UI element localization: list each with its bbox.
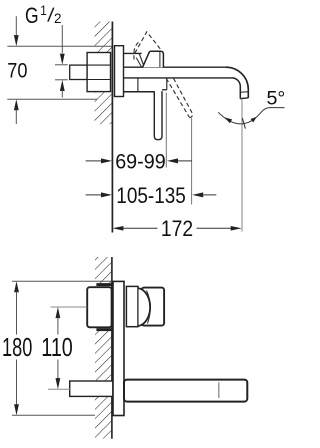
wall hatching (lower view) bbox=[95, 257, 112, 439]
wall plate bbox=[113, 281, 124, 415]
svg-text:172: 172 bbox=[161, 216, 193, 241]
dimension 70 bbox=[7, 16, 111, 124]
mounting tabs bbox=[96, 283, 111, 331]
body below tube / handle base block bbox=[124, 78, 167, 92]
spout bar seam tick bbox=[218, 382, 220, 398]
supply stub (lower view) bbox=[70, 381, 113, 396]
concealed body box bbox=[87, 287, 111, 327]
mixer body (above spout tube) bbox=[124, 53, 227, 67]
spout outlet tip bbox=[240, 92, 248, 99]
spout bar (bottom view) bbox=[124, 380, 247, 402]
wall hatching (upper view) bbox=[95, 22, 112, 125]
wall line (upper view, doubles as left extension line) bbox=[111, 22, 113, 233]
svg-text:2: 2 bbox=[54, 11, 62, 26]
svg-text:5°: 5° bbox=[267, 89, 286, 110]
extension line (handle, x=166.3) bbox=[165, 93, 167, 168]
wall line (lower view) bbox=[111, 257, 113, 439]
svg-text:70: 70 bbox=[7, 60, 27, 83]
svg-text:105-135: 105-135 bbox=[116, 183, 186, 208]
dashed lever (swung position) bbox=[166, 78, 193, 117]
dimension 105-135 bbox=[86, 183, 217, 208]
handle knob block bbox=[142, 288, 165, 326]
dimension G1/2 leader and arrows bbox=[55, 25, 68, 98]
dimension G1/2 label bbox=[25, 3, 62, 28]
spout bend bbox=[226, 67, 248, 98]
union nut bbox=[87, 53, 110, 92]
lever cap bbox=[143, 51, 164, 67]
svg-text:G: G bbox=[25, 3, 39, 28]
spout tube bottom line bbox=[124, 77, 233, 79]
outlet centerline (extension to 172 dim) bbox=[241, 100, 243, 232]
lever rod bbox=[154, 91, 162, 140]
handle knob face arc bbox=[139, 288, 151, 326]
dimension 69-99 bbox=[86, 151, 192, 174]
svg-text:110: 110 bbox=[41, 334, 73, 362]
wall flange bbox=[115, 46, 124, 97]
dimension 110 bbox=[41, 307, 87, 389]
dimension 180 bbox=[2, 281, 112, 415]
handle knob (bottom view): collar bbox=[126, 286, 138, 326]
angle 5° annotation bbox=[218, 89, 285, 129]
svg-text:180: 180 bbox=[2, 334, 32, 362]
dashed lever (upright position) bbox=[134, 32, 163, 60]
dimension 172 bbox=[112, 216, 241, 241]
svg-text:69-99: 69-99 bbox=[115, 151, 166, 174]
svg-text:1: 1 bbox=[40, 3, 47, 18]
extension line (swung lever tip, x=191.6) bbox=[191, 118, 193, 205]
supply pipe stub bbox=[70, 65, 87, 79]
